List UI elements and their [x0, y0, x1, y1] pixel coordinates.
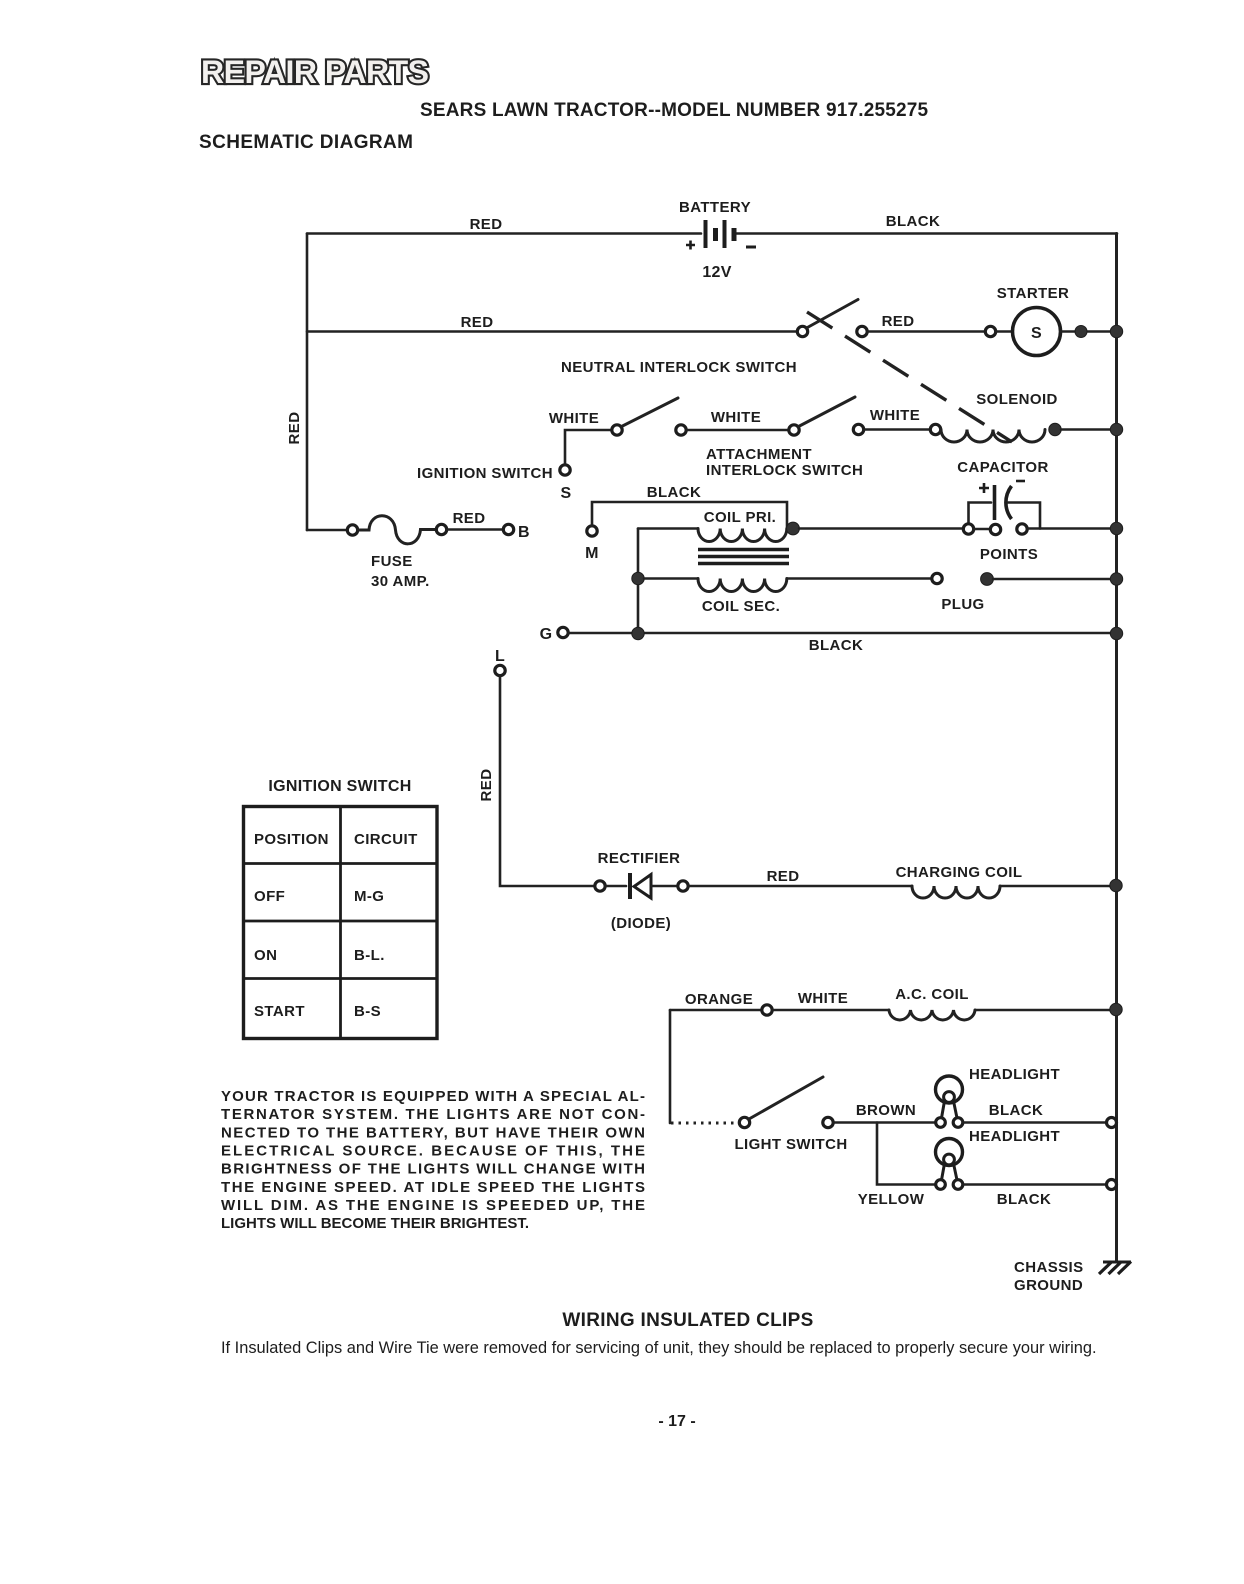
svg-text:ATTACHMENT: ATTACHMENT	[706, 446, 812, 463]
svg-text:GROUND: GROUND	[1014, 1277, 1083, 1294]
wire: white segment	[773, 1009, 890, 1012]
svg-text:30 AMP.: 30 AMP.	[371, 573, 430, 590]
svg-text:YELLOW: YELLOW	[858, 1191, 925, 1208]
svg-text:CHASSIS: CHASSIS	[1014, 1259, 1083, 1276]
node: starter input terminal	[985, 326, 995, 336]
mechanical link dashed to solenoid	[807, 312, 1012, 442]
label RED (top wire)	[470, 216, 503, 233]
svg-text:L: L	[495, 648, 505, 665]
label RED (left bus, rotated)	[286, 412, 303, 445]
svg-text:LIGHTS WILL BECOME THEIR BRIGH: LIGHTS WILL BECOME THEIR BRIGHTEST.	[221, 1215, 529, 1232]
svg-text:STARTER: STARTER	[997, 285, 1070, 302]
svg-text:IGNITION SWITCH: IGNITION SWITCH	[417, 465, 553, 482]
wire: solenoid to bus	[1061, 428, 1117, 431]
svg-text:BLACK: BLACK	[809, 637, 864, 654]
label RED (starter row left segment)	[461, 314, 494, 331]
table cell POSITION	[254, 831, 329, 848]
label FUSE 30 AMP.	[371, 553, 430, 590]
node: ignition terminal B	[503, 524, 513, 534]
svg-text:G: G	[540, 626, 553, 643]
junction dot AC row at bus	[1110, 1003, 1122, 1015]
svg-text:INTERLOCK SWITCH: INTERLOCK SWITCH	[706, 462, 863, 479]
svg-text:WIRING INSULATED CLIPS: WIRING INSULATED CLIPS	[562, 1310, 813, 1331]
diode D1 rectifier	[630, 873, 651, 899]
label WHITE 3	[870, 407, 920, 424]
label BATTERY	[679, 199, 751, 216]
table cell B-S	[354, 1003, 381, 1020]
svg-text:RED: RED	[461, 314, 494, 331]
svg-text:RED: RED	[882, 313, 915, 330]
label BLACK (M wire)	[647, 484, 702, 501]
node: headlight 1 left terminal	[936, 1118, 946, 1128]
svg-text:BLACK: BLACK	[886, 213, 941, 230]
junction dot charging row at bus	[1110, 879, 1122, 891]
wire: L vertical RED to rectifier row	[500, 676, 594, 886]
label CHARGING COIL	[896, 864, 1023, 881]
svg-text:RED: RED	[478, 769, 495, 802]
svg-text:REPAIR PARTS: REPAIR PARTS	[201, 54, 429, 90]
paragraph alternator note	[221, 1088, 645, 1232]
node: ignition terminal G	[558, 627, 568, 637]
svg-text:RED: RED	[286, 412, 303, 445]
junction dot solenoid row at bus	[1110, 423, 1122, 435]
table ignition switch frame	[244, 807, 438, 1039]
svg-text:LIGHT SWITCH: LIGHT SWITCH	[734, 1136, 847, 1153]
wire: coil left vertical	[637, 529, 640, 634]
switch blade light switch	[749, 1077, 823, 1119]
svg-text:B: B	[518, 524, 530, 541]
svg-text:M: M	[585, 545, 599, 562]
svg-text:NECTED TO THE BATTERY, BUT HAV: NECTED TO THE BATTERY, BUT HAVE THEIR OW…	[221, 1124, 645, 1141]
svg-text:- 17 -: - 17 -	[658, 1413, 695, 1430]
switch blade neutral interlock	[622, 398, 679, 427]
pin label B	[518, 524, 530, 541]
node: solenoid coil terminal	[930, 424, 940, 434]
label STARTER	[997, 285, 1070, 302]
svg-text:COIL SEC.: COIL SEC.	[702, 598, 780, 615]
wire: points left link	[974, 528, 990, 531]
junction dot starter output	[1075, 326, 1087, 338]
junction dot plug side	[981, 573, 994, 586]
wire: to solenoid coil	[864, 428, 930, 431]
svg-text:HEADLIGHT: HEADLIGHT	[969, 1128, 1060, 1145]
wire: to diode	[605, 885, 626, 888]
label A.C. COIL	[895, 986, 969, 1003]
wire: fuse row from left bus	[307, 529, 347, 532]
svg-text:CHARGING COIL: CHARGING COIL	[896, 864, 1023, 881]
node: headlight 1 right terminal	[953, 1118, 963, 1128]
table cell B-L.	[354, 947, 385, 964]
heading SCHEMATIC DIAGRAM	[199, 132, 413, 153]
svg-text:CIRCUIT: CIRCUIT	[354, 831, 418, 848]
label RED (fuse row)	[453, 510, 486, 527]
wire: starter to bus	[1061, 330, 1118, 333]
node: light switch left contact	[739, 1117, 749, 1127]
label BLACK (top wire)	[886, 213, 941, 230]
label (DIODE)	[611, 915, 671, 932]
label ATTACHMENT INTERLOCK SWITCH	[706, 446, 863, 479]
capacitor C1 bracket left	[969, 503, 992, 524]
inductor charging coil	[912, 886, 1000, 898]
fuse F1 30 AMP	[358, 516, 436, 544]
pin label S	[561, 485, 572, 502]
node: attachment interlock right contact	[853, 424, 863, 434]
node: fuse left terminal	[347, 525, 357, 535]
node: spark plug electrode	[932, 573, 942, 583]
wire: G to bus (BLACK)	[569, 632, 1118, 635]
svg-text:RED: RED	[767, 868, 800, 885]
table cell START	[254, 1003, 305, 1020]
wire: coil primary left lead	[638, 527, 698, 530]
label WHITE 2	[711, 409, 761, 426]
svg-text:SOLENOID: SOLENOID	[976, 391, 1058, 408]
svg-text:IGNITION SWITCH: IGNITION SWITCH	[268, 778, 411, 795]
headlight 2 lamp	[936, 1139, 963, 1181]
capacitor minus sign	[1016, 480, 1025, 483]
label CAPACITOR	[957, 459, 1048, 476]
label LIGHT SWITCH	[734, 1136, 847, 1153]
battery BT1	[706, 220, 735, 248]
node: headlight 2 right terminal	[953, 1180, 963, 1190]
svg-text:SCHEMATIC DIAGRAM: SCHEMATIC DIAGRAM	[199, 132, 413, 153]
wire: right bus vertical	[1115, 234, 1118, 1263]
label POINTS	[980, 546, 1038, 563]
svg-text:PLUG: PLUG	[941, 596, 984, 613]
svg-text:POINTS: POINTS	[980, 546, 1038, 563]
node: AC coil terminal	[762, 1005, 772, 1015]
label ORANGE	[685, 991, 753, 1008]
svg-text:B-L.: B-L.	[354, 947, 385, 964]
capacitor curved plate	[1006, 486, 1012, 519]
svg-text:TERNATOR SYSTEM. THE LIGHTS AR: TERNATOR SYSTEM. THE LIGHTS ARE NOT CON-	[221, 1106, 645, 1123]
node: headlight 1 bus terminal	[1107, 1118, 1117, 1128]
node: headlight 2 left terminal	[936, 1180, 946, 1190]
node: ignition terminal L	[495, 665, 505, 675]
transformer core	[698, 550, 789, 564]
capacitor bracket right	[1008, 503, 1040, 529]
label NEUTRAL INTERLOCK SWITCH	[561, 359, 797, 376]
svg-text:HEADLIGHT: HEADLIGHT	[969, 1066, 1060, 1083]
svg-text:NEUTRAL INTERLOCK SWITCH: NEUTRAL INTERLOCK SWITCH	[561, 359, 797, 376]
pin label G	[540, 626, 553, 643]
wire: coil primary to points	[799, 527, 963, 530]
battery plus sign	[686, 241, 695, 250]
svg-text:If Insulated Clips and Wire Ti: If Insulated Clips and Wire Tie were rem…	[221, 1339, 1097, 1357]
wire: AC coil to bus	[975, 1009, 1117, 1012]
svg-text:M-G: M-G	[354, 888, 384, 905]
wire: terminal to starter motor	[996, 330, 1013, 333]
wire: points to bus	[1028, 527, 1118, 530]
wire: branch to headlight 2	[877, 1123, 936, 1185]
node: starter switch right terminal	[857, 326, 867, 336]
svg-text:BLACK: BLACK	[989, 1102, 1044, 1119]
wire: light switch to headlight 1	[834, 1121, 937, 1124]
label WHITE 1	[549, 410, 599, 427]
svg-text:BRIGHTNESS OF THE LIGHTS WILL: BRIGHTNESS OF THE LIGHTS WILL CHANGE WIT…	[221, 1161, 645, 1178]
node: fuse right terminal	[436, 524, 446, 534]
label SOLENOID	[976, 391, 1058, 408]
table cell OFF	[254, 888, 285, 905]
svg-text:RED: RED	[453, 510, 486, 527]
label RED (L wire, rotated)	[478, 769, 495, 802]
junction dot points row at bus	[1110, 522, 1122, 534]
junction dot black row at bus	[1110, 627, 1122, 639]
svg-text:START: START	[254, 1003, 305, 1020]
svg-text:THE ENGINE SPEED. AT IDLE SPEE: THE ENGINE SPEED. AT IDLE SPEED THE LIGH…	[221, 1179, 645, 1196]
heading WIRING INSULATED CLIPS	[562, 1310, 813, 1331]
inductor coil secondary	[698, 579, 787, 592]
svg-text:WHITE: WHITE	[870, 407, 920, 424]
svg-text:YOUR TRACTOR IS EQUIPPED WITH: YOUR TRACTOR IS EQUIPPED WITH A SPECIAL …	[221, 1088, 645, 1105]
svg-text:RECTIFIER: RECTIFIER	[598, 850, 681, 867]
svg-text:CAPACITOR: CAPACITOR	[957, 459, 1048, 476]
node: points contact a	[990, 524, 1000, 534]
node: points left contact	[963, 524, 973, 534]
battery minus sign	[746, 246, 756, 249]
capacitor plus sign	[979, 483, 989, 493]
label WHITE (AC row)	[798, 990, 848, 1007]
wire: coil secondary to plug	[787, 577, 932, 580]
capacitor straight plate	[993, 485, 997, 520]
label BLACK (bottom coil row)	[809, 637, 864, 654]
label RECTIFIER	[598, 850, 681, 867]
solenoid coil winding	[941, 430, 1045, 443]
junction dot starter row at bus	[1110, 325, 1122, 337]
svg-text:FUSE: FUSE	[371, 553, 413, 570]
wire: between interlock switches	[687, 429, 789, 432]
svg-text:S: S	[1031, 325, 1042, 342]
wire: starter row from left bus	[307, 330, 797, 333]
wire: left bus vertical RED	[306, 234, 309, 531]
node: neutral interlock right contact	[676, 425, 686, 435]
wire: headlight 1 to bus	[963, 1121, 1111, 1124]
value label 12V	[702, 264, 731, 281]
table ignition switch title	[268, 778, 411, 795]
label IGNITION SWITCH	[417, 465, 553, 482]
label HEADLIGHT 2	[969, 1128, 1060, 1145]
svg-text:B-S: B-S	[354, 1003, 381, 1020]
label RED (rectifier row)	[767, 868, 800, 885]
inductor AC coil	[889, 1010, 975, 1020]
wire: dotted lead to light switch	[671, 1122, 737, 1125]
node: ignition switch terminal S	[560, 465, 570, 475]
svg-text:S: S	[561, 485, 572, 502]
label PLUG	[941, 596, 984, 613]
node: attachment interlock left contact	[789, 425, 799, 435]
wire: S terminal riser	[565, 430, 611, 465]
switch blade attachment interlock	[799, 397, 856, 427]
label CHASSIS GROUND	[1014, 1259, 1083, 1294]
svg-text:BROWN: BROWN	[856, 1102, 916, 1119]
wire: diode to terminal	[652, 885, 678, 888]
svg-text:BLACK: BLACK	[647, 484, 702, 501]
node: starter switch left terminal	[797, 326, 807, 336]
svg-text:RED: RED	[470, 216, 503, 233]
switch blade (solenoid contact)	[807, 300, 859, 329]
chassis ground symbol	[1099, 1262, 1131, 1275]
inductor coil primary	[698, 529, 787, 542]
wire: plug to bus	[993, 578, 1117, 581]
wire: rectifier to charging coil	[689, 885, 913, 888]
label COIL PRI.	[704, 509, 777, 526]
label HEADLIGHT 1	[969, 1066, 1060, 1083]
svg-text:ON: ON	[254, 947, 277, 964]
table cell M-G	[354, 888, 384, 905]
svg-text:(DIODE): (DIODE)	[611, 915, 671, 932]
node: headlight 2 bus terminal	[1107, 1180, 1117, 1190]
node: ignition terminal M	[587, 526, 597, 536]
wire: AC coil row corner vertical	[669, 1010, 672, 1123]
wire: to starter	[868, 330, 986, 333]
subtitle SEARS LAWN TRACTOR model number	[420, 100, 929, 121]
svg-text:ORANGE: ORANGE	[685, 991, 753, 1008]
pin label M	[585, 545, 599, 562]
node: points contact b	[1017, 524, 1027, 534]
junction dot ground wire at coil vertical	[632, 627, 644, 639]
wire: orange segment	[670, 1009, 761, 1012]
svg-text:ELECTRICAL SOURCE. BECAUSE OF: ELECTRICAL SOURCE. BECAUSE OF THIS, THE	[221, 1143, 645, 1160]
pin label L	[495, 648, 505, 665]
label BLACK (headlight 1)	[989, 1102, 1044, 1119]
junction dot solenoid output	[1049, 423, 1061, 435]
svg-text:WHITE: WHITE	[711, 409, 761, 426]
node: rectifier right terminal	[678, 881, 688, 891]
label RED (starter row)	[882, 313, 915, 330]
svg-text:WHITE: WHITE	[798, 990, 848, 1007]
headlight 1 lamp	[936, 1076, 963, 1118]
svg-text:COIL PRI.: COIL PRI.	[704, 509, 777, 526]
svg-text:12V: 12V	[702, 264, 731, 281]
svg-text:WHITE: WHITE	[549, 410, 599, 427]
wire: top bus left segment (RED)	[307, 232, 701, 235]
label BROWN	[856, 1102, 916, 1119]
label COIL SEC.	[702, 598, 780, 615]
junction dot coil primary right	[787, 522, 800, 535]
title REPAIR PARTS	[201, 54, 429, 90]
svg-text:WILL DIM. AS THE ENGINE IS SPE: WILL DIM. AS THE ENGINE IS SPEEDED UP, T…	[221, 1197, 645, 1214]
label YELLOW	[858, 1191, 925, 1208]
node: light switch right contact	[823, 1117, 833, 1127]
wire: fuse to B terminal	[447, 528, 503, 531]
table cell CIRCUIT	[354, 831, 418, 848]
node: rectifier left terminal	[595, 881, 605, 891]
svg-text:OFF: OFF	[254, 888, 285, 905]
svg-text:SEARS LAWN TRACTOR--MODEL NUMB: SEARS LAWN TRACTOR--MODEL NUMBER 917.255…	[420, 100, 929, 121]
wire: top bus right segment (BLACK)	[736, 232, 1117, 235]
wire: headlight 2 to bus	[963, 1183, 1111, 1186]
starter motor S	[1013, 308, 1061, 356]
junction dot plug row at bus	[1110, 573, 1122, 585]
label BLACK (headlight 2)	[997, 1191, 1052, 1208]
table cell ON	[254, 947, 277, 964]
junction dot coil secondary left	[632, 572, 644, 584]
wire: coil secondary left lead	[644, 577, 698, 580]
svg-text:BLACK: BLACK	[997, 1191, 1052, 1208]
svg-text:POSITION: POSITION	[254, 831, 329, 848]
svg-text:BATTERY: BATTERY	[679, 199, 751, 216]
wire: M to coil primary right	[592, 502, 787, 529]
svg-text:A.C. COIL: A.C. COIL	[895, 986, 969, 1003]
node: neutral interlock left contact	[612, 425, 622, 435]
page number	[658, 1413, 695, 1430]
wire: charging coil to bus	[1000, 885, 1117, 888]
note sentence	[221, 1339, 1097, 1357]
